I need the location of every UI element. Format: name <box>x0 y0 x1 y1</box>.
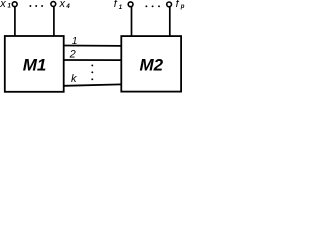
svg-text:k: k <box>71 73 77 85</box>
svg-text:M1: M1 <box>23 56 47 75</box>
svg-text:1: 1 <box>72 36 78 47</box>
svg-text:4: 4 <box>65 4 70 10</box>
svg-text:x: x <box>59 0 66 10</box>
svg-text:M2: M2 <box>139 55 163 74</box>
svg-text:2: 2 <box>69 49 76 61</box>
svg-text:p: p <box>180 4 185 10</box>
svg-text:x: x <box>0 0 6 10</box>
